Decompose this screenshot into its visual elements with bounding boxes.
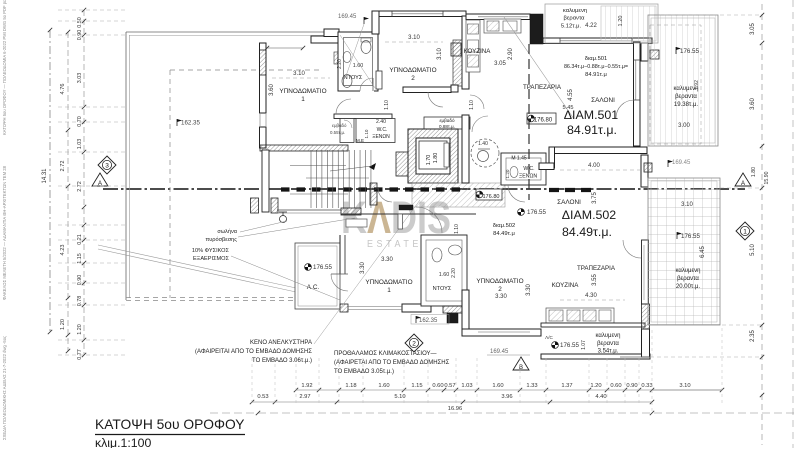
svg-text:3.96: 3.96 [501, 394, 512, 400]
svg-text:2: 2 [498, 286, 502, 293]
svg-text:1.10: 1.10 [454, 224, 460, 234]
svg-text:84.49τ.μ: 84.49τ.μ [493, 231, 515, 237]
veranda 20.00 deck [648, 178, 720, 325]
svg-text:βεραντα: βεραντα [597, 341, 619, 347]
bath501 leader diag [340, 35, 375, 88]
svg-text:19.38τ.μ.: 19.38τ.μ. [674, 102, 699, 108]
wall bed1-501 west lower [260, 127, 267, 148]
wall 502 entry line [341, 213, 476, 215]
svg-text:169.45: 169.45 [490, 349, 509, 355]
svg-text:169.45: 169.45 [338, 14, 357, 20]
svg-text:2.72: 2.72 [60, 161, 66, 172]
svg-text:176.80: 176.80 [482, 194, 499, 200]
stair-elevator wall [396, 152, 408, 176]
column black kitchen [530, 14, 543, 44]
svg-text:5.10: 5.10 [750, 244, 756, 256]
svg-text:3.30: 3.30 [360, 262, 366, 274]
stair up arrow [369, 163, 376, 170]
stair south line [277, 209, 341, 211]
wall divider stub [549, 147, 555, 168]
window bed1-502 south [348, 306, 402, 308]
bath502 drain [447, 313, 458, 323]
svg-text:10% ΦΥΣΙΚΟΣ: 10% ΦΥΣΙΚΟΣ [192, 248, 230, 254]
door arc terrace [378, 188, 392, 202]
veranda 5.12 outline [545, 4, 658, 43]
svg-text:καλυμενη: καλυμενη [563, 8, 587, 14]
svg-text:1: 1 [743, 228, 747, 235]
bottom witness lines [251, 358, 253, 403]
pier 502 se solid [642, 329, 650, 357]
svg-text:διαμ.502: διαμ.502 [493, 223, 516, 229]
svg-text:W.C.: W.C. [377, 127, 388, 133]
svg-text:169.45: 169.45 [672, 160, 691, 166]
svg-text:ΠΡΟΘΑΛΑΜΟΣ ΚΛΙΜΑΚΟΣΤΑΣΙΟΥ—: ΠΡΟΘΑΛΑΜΟΣ ΚΛΙΜΑΚΟΣΤΑΣΙΟΥ— [334, 351, 437, 357]
svg-text:176.55: 176.55 [313, 264, 332, 271]
svg-text:ΔΙΑΜ.501: ΔΙΑΜ.501 [564, 108, 619, 122]
svg-text:3.10: 3.10 [408, 35, 420, 41]
svg-text:πυρόσβεσης: πυρόσβεσης [205, 236, 237, 243]
svg-text:176.55: 176.55 [527, 209, 546, 216]
svg-text:3.05: 3.05 [750, 23, 756, 35]
svg-text:1.92: 1.92 [301, 383, 312, 389]
door bed1-502 [331, 274, 348, 291]
svg-text:1.37: 1.37 [561, 383, 572, 389]
svg-text:3.30: 3.30 [495, 294, 507, 300]
level 162.35 bottom [411, 315, 449, 325]
svg-text:0.21: 0.21 [77, 234, 83, 245]
svg-text:0.77: 0.77 [77, 349, 83, 360]
svg-text:1.70: 1.70 [426, 155, 432, 166]
wall salon501 ne stub [641, 43, 648, 61]
svg-text:εμβαδό: εμβαδό [332, 123, 347, 128]
svg-text:4.76: 4.76 [60, 84, 66, 95]
svg-text:ΔΙΑΜ.502: ΔΙΑΜ.502 [562, 208, 617, 222]
bath502 fixtures [432, 248, 442, 262]
svg-text:3: 3 [105, 162, 109, 169]
svg-text:καλυμενη: καλυμενη [595, 333, 620, 339]
right page dashed line [792, 0, 794, 448]
bath502 pier [443, 306, 467, 313]
svg-text:διαμ.501: διαμ.501 [585, 56, 608, 62]
bath502 walls [421, 235, 467, 306]
svg-text:ΥΠΝΟΔΩΜΑΤΙΟ: ΥΠΝΟΔΩΜΑΤΙΟ [476, 278, 523, 285]
level 176.55 ver3.54 [552, 342, 559, 349]
svg-text:1.60: 1.60 [439, 272, 450, 278]
wall north top kitchen [466, 14, 530, 20]
svg-text:ΥΠΝΟΔΩΜΑΤΙΟ: ΥΠΝΟΔΩΜΑΤΙΟ [279, 88, 326, 95]
svg-text:1.80: 1.80 [433, 153, 439, 164]
fire pipe symbol [280, 216, 287, 223]
svg-text:Μ.Ε: Μ.Ε [356, 138, 364, 143]
svg-text:ΦΑΚΕΛΟΣ ΜΕΛΕΤΗ 5/2022 — ΑΔΑΜΑΝ: ΦΑΚΕΛΟΣ ΜΕΛΕΤΗ 5/2022 — ΑΔΑΜΑΝΤΙΑ ΘΗ-ΑΡΧ… [2, 165, 7, 300]
stair treads [310, 150, 312, 208]
svg-text:1.10: 1.10 [469, 100, 475, 110]
svg-text:B: B [519, 365, 523, 371]
wall step top bed1 [311, 36, 339, 43]
svg-text:3.75: 3.75 [592, 192, 598, 204]
window salon501 north [560, 40, 632, 42]
door arc salon502 entry [416, 207, 442, 233]
bath501 walls [338, 32, 378, 91]
svg-text:1.10: 1.10 [384, 100, 390, 110]
axis centerline [103, 188, 745, 190]
bottom dim chain row2 [252, 401, 652, 403]
svg-text:1.03: 1.03 [461, 383, 472, 389]
wc handicap walls [462, 115, 469, 183]
grid marker A right [735, 173, 751, 187]
svg-text:0.60: 0.60 [610, 383, 621, 389]
door arc bed1-501 [336, 99, 351, 114]
dim chain inner left [83, 10, 85, 355]
wall divider 501-502 [554, 147, 647, 154]
elevator shaft hatched [408, 129, 458, 183]
window 502 east [643, 245, 645, 300]
svg-text:1.60: 1.60 [492, 383, 503, 389]
door arc balcony501 [616, 100, 634, 118]
level 162.35 terrace [177, 119, 182, 126]
bath501 hatch strip [334, 52, 340, 64]
svg-text:3.60: 3.60 [269, 84, 275, 96]
grid marker 3 [98, 156, 116, 174]
sidebar drawing info text [2, 0, 7, 440]
machinery box elevator [424, 117, 470, 129]
svg-text:2.90: 2.90 [508, 48, 514, 60]
svg-text:A: A [741, 181, 745, 187]
svg-text:84.91τ.μ.: 84.91τ.μ. [567, 123, 617, 137]
svg-text:1.20: 1.20 [505, 169, 510, 178]
wc handicap door arc [472, 116, 488, 132]
guest rooms 501 [340, 119, 354, 143]
stair sw pier [271, 198, 278, 213]
level box 176.80 a [527, 113, 556, 124]
svg-text:ΣΑΛΟΝΙ: ΣΑΛΟΝΙ [557, 199, 581, 206]
svg-text:ΚΑΤΟΨΗ 5ου ΟΡΟΦΟΥ: ΚΑΤΟΨΗ 5ου ΟΡΟΦΟΥ [95, 417, 245, 432]
wall bed2-501 south [403, 87, 451, 93]
terrace bottom dashed [126, 297, 311, 299]
svg-text:1.20: 1.20 [590, 383, 601, 389]
svg-text:3.10: 3.10 [293, 71, 305, 77]
stair top hatch band [260, 145, 348, 151]
svg-text:2: 2 [412, 340, 416, 347]
window north wall [392, 13, 443, 15]
svg-text:1.18: 1.18 [345, 383, 356, 389]
svg-text:3.10: 3.10 [681, 202, 693, 208]
wall north top [379, 11, 466, 17]
kitchen leader diagonal [504, 17, 574, 119]
dim total 14.31 line [49, 30, 51, 332]
right dim line [761, 4, 763, 445]
wall divider step [539, 163, 554, 170]
svg-text:ΚΟΥΖΙΝΑ: ΚΟΥΖΙΝΑ [464, 48, 492, 55]
svg-text:3.30: 3.30 [526, 284, 532, 296]
wall stub 451 [451, 85, 458, 92]
svg-text:ΞΕΝΩΝ: ΞΕΝΩΝ [372, 134, 390, 140]
svg-text:1.60: 1.60 [378, 383, 389, 389]
svg-text:0.57: 0.57 [444, 383, 455, 389]
svg-text:1.33: 1.33 [526, 383, 537, 389]
svg-text:3.30: 3.30 [381, 257, 393, 263]
ac texts [305, 264, 312, 271]
terrace edge top [126, 31, 372, 33]
svg-text:ΚΕΝΟ ΑΝΕΛΚΥΣΤΗΡΑ: ΚΕΝΟ ΑΝΕΛΚΥΣΤΗΡΑ [250, 340, 312, 346]
veranda 19.38 deck [648, 15, 718, 146]
stair se pier [341, 208, 361, 215]
svg-text:3.05: 3.05 [494, 61, 506, 67]
svg-text:176.55: 176.55 [560, 342, 579, 349]
svg-text:3.54τ.μ.: 3.54τ.μ. [598, 349, 619, 355]
svg-text:βεραντα: βεραντα [563, 16, 585, 22]
svg-text:1.40: 1.40 [478, 141, 488, 147]
svg-text:1.92: 1.92 [694, 80, 700, 90]
kitchen501 column [451, 43, 461, 56]
svg-text:βεραντα: βεραντα [677, 276, 699, 282]
pier 502 se hatch [642, 304, 650, 329]
door thresholds corridor [399, 205, 413, 210]
svg-text:0.78: 0.78 [77, 296, 83, 307]
svg-text:0.88τ.μ.: 0.88τ.μ. [439, 124, 455, 129]
svg-text:2.20: 2.20 [337, 59, 343, 69]
svg-text:14.31: 14.31 [42, 168, 48, 184]
wc xenon toilet [510, 167, 518, 178]
svg-text:ΕΞΑΕΡΙΣΜΟΣ: ΕΞΑΕΡΙΣΜΟΣ [193, 256, 230, 262]
svg-text:176.55: 176.55 [680, 48, 699, 55]
svg-text:ΝΤΟΥΣ: ΝΤΟΥΣ [433, 286, 452, 292]
wall bed1-502 west [339, 235, 341, 274]
kitchen501 counters [466, 20, 480, 72]
svg-text:4.40: 4.40 [595, 394, 606, 400]
stair rail column [370, 183, 377, 205]
svg-text:176.55: 176.55 [681, 233, 700, 240]
svg-text:0.70: 0.70 [77, 116, 83, 127]
door arc guest1 [344, 120, 352, 128]
grid marker A left [92, 173, 108, 187]
svg-text:2: 2 [411, 75, 415, 82]
svg-text:(ΑΦΑΙΡΕΙΤΑΙ ΑΠΟ ΤΟ ΕΜΒΑΔΟ ΔΟ: (ΑΦΑΙΡΕΙΤΑΙ ΑΠΟ ΤΟ ΕΜΒΑΔΟ ΔΟΜΗΣΗΣ [195, 349, 312, 355]
elevator door [444, 143, 449, 167]
door arc kitchen501 [470, 95, 484, 109]
bed1 door dim line [267, 47, 303, 49]
wall bed2-502 west [462, 290, 469, 336]
stair landing lines [290, 165, 346, 167]
svg-text:84.91τ.μ: 84.91τ.μ [585, 72, 607, 78]
right witness lines [650, 356, 762, 358]
svg-text:4.55: 4.55 [568, 89, 574, 101]
svg-text:162.35: 162.35 [419, 318, 438, 324]
bath501 leader [346, 24, 364, 76]
wc handicap circle [471, 139, 499, 167]
stair west wall [262, 150, 269, 212]
svg-text:σωλήνα: σωλήνα [217, 228, 237, 235]
bed2 pilaster [376, 71, 382, 89]
svg-text:2.97: 2.97 [299, 394, 310, 400]
dim chain outer left [67, 32, 69, 351]
wall bed1-502 south piers [340, 304, 348, 312]
svg-text:0.55τ.μ.: 0.55τ.μ. [330, 130, 345, 135]
wall bed1-501 west upper [260, 43, 267, 113]
column salon502 e [644, 163, 652, 172]
corridor hatch [412, 183, 505, 207]
svg-text:0.33: 0.33 [641, 383, 652, 389]
wall bed2-502 south [462, 329, 541, 336]
svg-text:ESTATE: ESTATE [367, 239, 422, 250]
door arc bed2-501 [428, 92, 443, 107]
svg-text:1.80: 1.80 [751, 167, 757, 177]
svg-text:0.90: 0.90 [626, 383, 637, 389]
bottom dim chain row1 [296, 389, 722, 391]
svg-text:1: 1 [301, 96, 305, 103]
svg-text:1: 1 [387, 287, 391, 294]
svg-text:84.49τ.μ.: 84.49τ.μ. [562, 225, 612, 239]
grid marker B bottom [513, 357, 529, 371]
wall salon501 north [543, 38, 652, 44]
corridor heavy wall east [549, 188, 594, 192]
bottom dim total [210, 412, 796, 414]
svg-text:ΥΠΝΟΔΩΜΑΤΙΟ: ΥΠΝΟΔΩΜΑΤΙΟ [389, 67, 436, 74]
veranda 19.38 dashed [650, 25, 701, 144]
svg-text:3.10: 3.10 [437, 48, 443, 60]
svg-text:0.90: 0.90 [77, 275, 83, 286]
svg-text:ΚΟΥΖΙΝΑ: ΚΟΥΖΙΝΑ [552, 282, 580, 289]
veranda 3.54 walls [541, 323, 645, 327]
terrace edge left [125, 32, 127, 300]
svg-text:Λ/C: Λ/C [545, 335, 553, 340]
bath501 fixtures [361, 41, 371, 54]
ac box [295, 243, 340, 309]
bath501 door arc [360, 78, 373, 91]
kitchen502 counters [546, 308, 614, 323]
svg-text:1.15: 1.15 [411, 383, 422, 389]
wall salon501 east [634, 42, 641, 146]
svg-text:ΚΑΤΟΨΗ 5ου ΟΡΟΦΟΥ — ΠΟΛΕΟΔΟΜΙΑ: ΚΑΤΟΨΗ 5ου ΟΡΟΦΟΥ — ΠΟΛΕΟΔΟΜΙΑ 6-2022 ΡΜ… [2, 0, 7, 135]
svg-text:4.30: 4.30 [585, 293, 597, 299]
svg-text:4.22: 4.22 [585, 23, 597, 29]
svg-text:εμβαδό: εμβαδό [439, 117, 455, 123]
svg-text:(ΑΦΑΙΡΕΤΑΙ ΑΠΟ ΤΟ ΕΜΒΑΔΟ ΔΟΜ: (ΑΦΑΙΡΕΤΑΙ ΑΠΟ ΤΟ ΕΜΒΑΔΟ ΔΟΜΗΣΗΣ [334, 360, 450, 366]
elevator cab [419, 141, 447, 169]
svg-text:κλιμ.1:100: κλιμ.1:100 [95, 436, 151, 448]
svg-text:20.00τ.μ.: 20.00τ.μ. [676, 284, 701, 290]
svg-text:2.72: 2.72 [77, 181, 83, 192]
svg-text:6.45: 6.45 [700, 246, 706, 258]
svg-text:ΞΕΝΩΝ: ΞΕΝΩΝ [519, 174, 537, 180]
svg-text:ΣΑΛΟΝΙ: ΣΑΛΟΝΙ [591, 97, 615, 104]
level 176.55 salon502 [518, 209, 525, 216]
svg-text:1.20: 1.20 [77, 324, 83, 335]
svg-text:0.53: 0.53 [257, 394, 268, 400]
svg-text:ΥΠΝΟΔΩΜΑΤΙΟ: ΥΠΝΟΔΩΜΑΤΙΟ [365, 279, 412, 286]
leader lines to AC [98, 245, 296, 288]
svg-text:15.90: 15.90 [764, 171, 770, 184]
svg-text:Μ 1.45: Μ 1.45 [511, 156, 527, 162]
svg-text:3.10: 3.10 [679, 383, 690, 389]
entry door box [398, 214, 403, 229]
column salon501 ne [650, 50, 659, 59]
svg-text:ΤΡΑΠΕΖΑΡΙΑ: ΤΡΑΠΕΖΑΡΙΑ [577, 265, 616, 272]
svg-text:1.20: 1.20 [60, 319, 66, 330]
door arc salon502 [508, 185, 525, 202]
svg-text:176.80: 176.80 [534, 118, 553, 124]
wall salon502 east [641, 155, 648, 187]
svg-text:1.20: 1.20 [618, 16, 624, 27]
svg-text:καλυμενη: καλυμενη [675, 268, 700, 274]
window sill bed1 west [259, 113, 261, 127]
svg-text:2.35: 2.35 [750, 330, 756, 342]
wall corridor501 [334, 114, 392, 119]
window salon501 east [635, 60, 637, 100]
corridor heavy wall west [281, 187, 467, 191]
svg-text:ΤΟ ΕΜΒΑΔΟ 3.06τ.μ.): ΤΟ ΕΜΒΑΔΟ 3.06τ.μ.) [252, 358, 312, 364]
bottom witness right [651, 330, 653, 414]
svg-text:2.40: 2.40 [376, 119, 386, 125]
svg-text:3.00: 3.00 [678, 123, 690, 129]
svg-text:1.03: 1.03 [77, 139, 83, 150]
svg-text:1.10: 1.10 [364, 129, 369, 138]
watermark KADIS [341, 192, 451, 250]
bath501 door gap [360, 86, 374, 92]
svg-text:4.00: 4.00 [588, 163, 600, 169]
wall 502 east lower [642, 240, 649, 304]
grid marker 1 right [736, 222, 754, 240]
svg-text:ΤΟ ΕΜΒΑΔΟ 3.05τ.μ.): ΤΟ ΕΜΒΑΔΟ 3.05τ.μ.) [334, 369, 394, 375]
window bed2-502 south [478, 331, 530, 333]
svg-text:86.34τ.μ−0.88τ.μ−0.55τ.μ=: 86.34τ.μ−0.88τ.μ−0.55τ.μ= [564, 64, 628, 70]
svg-text:1.07: 1.07 [581, 340, 587, 350]
svg-text:3.60: 3.60 [750, 98, 756, 110]
wall north-west vertical [372, 11, 379, 34]
level 176.55 v1938 [676, 47, 681, 54]
svg-text:3.55: 3.55 [592, 274, 598, 286]
svg-text:βεραντα: βεραντα [675, 94, 697, 100]
svg-text:162.35: 162.35 [181, 120, 200, 127]
svg-text:ΝΤΟΥΣ: ΝΤΟΥΣ [344, 75, 363, 81]
title underline [95, 434, 245, 436]
level box 176.80 b [476, 189, 502, 200]
svg-text:4.23: 4.23 [60, 245, 66, 256]
apartment divider dashed [528, 44, 530, 200]
svg-text:2.20: 2.20 [451, 268, 457, 278]
wc xenon 502 box [501, 153, 546, 185]
svg-text:1.15: 1.15 [77, 253, 83, 264]
svg-text:3.03: 3.03 [77, 73, 83, 84]
door arc balcony502 [623, 240, 641, 258]
left witness lines [58, 9, 128, 11]
grid marker 2 bottom [405, 334, 423, 352]
svg-text:ΣΧΕΔΙΑ ΠΟΛΕΟΔΟΜΙΚΗΣ ΑΔΕΙΑΣ 21-: ΣΧΕΔΙΑ ΠΟΛΕΟΔΟΜΙΚΗΣ ΑΔΕΙΑΣ 21-7-2022 dwg… [2, 336, 7, 440]
svg-text:0.60: 0.60 [432, 383, 443, 389]
wall bed1-501 west hatch [260, 50, 267, 75]
terrace dashed boundary [169, 70, 171, 298]
wall north jog [462, 16, 469, 89]
line south se [620, 356, 650, 358]
svg-text:16.96: 16.96 [448, 406, 463, 412]
svg-text:5.12τ.μ.: 5.12τ.μ. [561, 24, 582, 30]
